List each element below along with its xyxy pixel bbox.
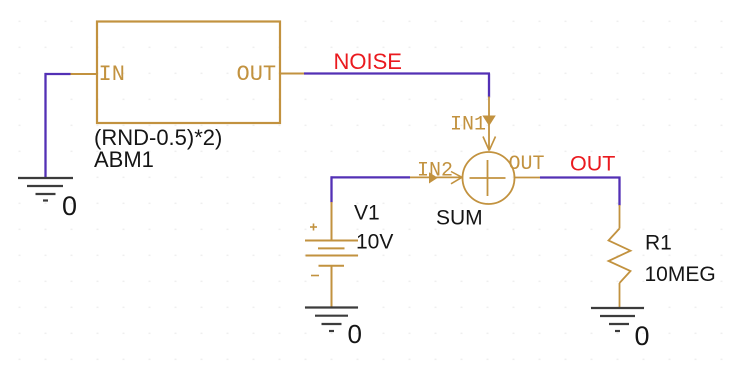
SUM input pin IN1 xyxy=(482,97,495,151)
svg-text:0: 0 xyxy=(635,321,650,351)
resistor R1 xyxy=(609,205,631,307)
SUM part U: summing circle xyxy=(463,152,515,204)
ground 0 (under V1) xyxy=(305,308,358,332)
wire OUT horizontal xyxy=(540,176,621,178)
wire NOISE horizontal xyxy=(304,72,490,74)
svg-text:10V: 10V xyxy=(356,231,393,254)
V1 plus sign xyxy=(310,224,317,231)
wire OUT vertical to R1 xyxy=(618,177,620,206)
ABM1 pin IN stub xyxy=(71,73,98,75)
svg-text:V1: V1 xyxy=(354,202,380,225)
svg-text:SUM: SUM xyxy=(436,207,483,230)
V1 minus sign xyxy=(311,275,319,277)
ground 0 (left) xyxy=(18,178,73,201)
wire from IN pin horizontal xyxy=(45,73,71,75)
svg-text:NOISE: NOISE xyxy=(334,49,402,74)
svg-text:IN1: IN1 xyxy=(450,114,486,137)
svg-text:OUT: OUT xyxy=(570,152,615,176)
svg-text:0: 0 xyxy=(348,319,362,349)
svg-text:IN2: IN2 xyxy=(417,160,453,183)
SUM output pin OUT xyxy=(515,177,541,179)
svg-text:10MEG: 10MEG xyxy=(645,263,716,286)
wire from IN down to ground xyxy=(44,73,46,177)
svg-text:ABM1: ABM1 xyxy=(94,147,154,172)
svg-text:OUT: OUT xyxy=(237,62,277,87)
svg-text:OUT: OUT xyxy=(509,153,545,176)
ground 0 (under R1) xyxy=(591,308,644,331)
svg-text:0: 0 xyxy=(62,191,77,221)
wire IN2 vertical to V1 xyxy=(330,176,332,202)
wire NOISE vertical drop xyxy=(488,74,490,98)
wire IN2 horizontal from V1 xyxy=(331,176,411,178)
SUM input pin IN2 xyxy=(410,172,463,184)
ABM1 pin OUT stub xyxy=(280,73,304,75)
voltage source V1 xyxy=(305,202,358,307)
ABM source ABM1 body xyxy=(97,22,280,124)
svg-text:R1: R1 xyxy=(645,232,672,255)
svg-text:IN: IN xyxy=(99,62,125,87)
